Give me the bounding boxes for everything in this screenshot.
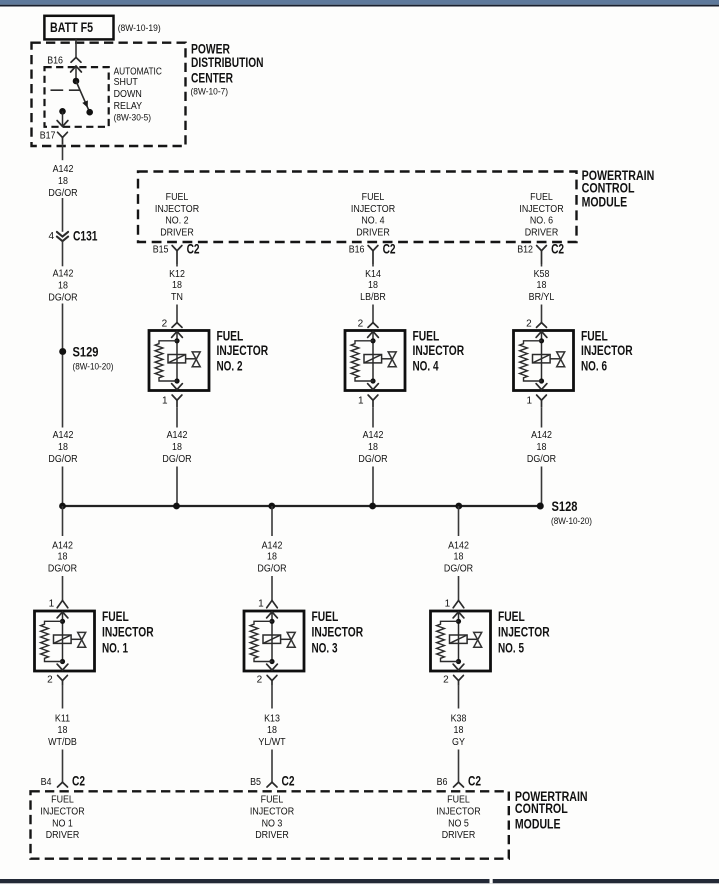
svg-text:DRIVER: DRIVER [442,830,476,841]
powertrain control module dashed box (bottom) [31,791,509,858]
svg-text:C2: C2 [187,242,200,257]
relay normally-open contact [86,109,93,116]
label FUEL INJECTOR NO 5 DRIVER (in PCM box) [436,795,480,842]
injector 2 pin 2 connector [162,319,182,330]
wire injector 6 to splice bus [541,407,543,506]
svg-text:NO 5: NO 5 [448,818,469,829]
connector B6 C2 [437,773,481,788]
wire label K12 18 TN [169,269,185,303]
relay output wire with arrow to B17 [57,111,68,126]
svg-text:DG/OR: DG/OR [48,188,77,199]
wire label K11 18 WT/DB [48,714,77,749]
svg-text:NO. 3: NO. 3 [312,641,338,656]
label FUEL INJECTOR NO. 6 DRIVER (in PCM box) [519,192,563,239]
label FUEL INJECTOR NO 3 DRIVER (in PCM box) [250,795,294,842]
svg-text:1: 1 [445,598,451,609]
wire K14 18 LB/BR from B16 to injector 4 [372,264,374,323]
svg-text:DG/OR: DG/OR [444,564,473,575]
wire label A142 18 DG/OR [527,430,556,465]
svg-text:INJECTOR: INJECTOR [351,204,395,215]
svg-text:(8W-10-19): (8W-10-19) [118,23,161,34]
wire injector 4 to splice bus [372,407,374,506]
wire S129 to splice bus [62,355,64,506]
svg-text:18: 18 [368,280,378,291]
svg-text:18: 18 [58,281,68,292]
svg-text:B17: B17 [40,130,56,141]
svg-text:2: 2 [526,319,532,330]
svg-text:FUEL: FUEL [217,329,244,344]
svg-text:FUEL: FUEL [447,795,470,806]
svg-text:INJECTOR: INJECTOR [217,343,269,358]
svg-text:18: 18 [368,442,378,453]
wire injector 2 to splice bus [176,407,178,506]
svg-text:(8W-30-5): (8W-30-5) [114,112,152,123]
label AUTOMATIC SHUT DOWN RELAY (8W-30-5) [114,66,162,123]
wire splice bus down to injector 5 [458,506,460,600]
svg-text:K38: K38 [451,714,467,725]
svg-text:NO 3: NO 3 [262,818,283,829]
svg-text:2: 2 [358,319,364,330]
label FUEL INJECTOR NO 1 DRIVER (in PCM box) [40,795,84,842]
svg-text:B4: B4 [41,777,52,788]
fuel injector NO. 1 component [35,609,154,671]
wire C131 to splice S129 [62,241,64,348]
svg-text:FUEL: FUEL [261,795,284,806]
injector 2 pin 1 connector [162,395,182,407]
wire splice bus down to injector 3 [271,506,273,600]
bus junction [59,503,66,510]
svg-text:K58: K58 [534,269,550,280]
svg-text:NO. 2: NO. 2 [165,216,189,227]
svg-text:S129: S129 [73,344,99,359]
svg-text:INJECTOR: INJECTOR [413,343,465,358]
svg-text:2: 2 [47,675,53,686]
wire label K58 18 BR/YL [529,269,555,303]
svg-text:RELAY: RELAY [114,101,143,112]
label FUEL INJECTOR NO. 4 DRIVER (in PCM box) [351,192,395,239]
bus junction [268,503,275,510]
svg-text:DG/OR: DG/OR [527,454,556,465]
svg-text:A142: A142 [53,164,74,175]
svg-text:MODULE: MODULE [582,195,628,210]
wire label K13 18 YL/WT [258,714,285,749]
injector 5 pin 2 connector [443,675,463,686]
svg-text:FUEL: FUEL [102,609,129,624]
svg-text:AUTOMATIC: AUTOMATIC [114,66,162,77]
svg-text:B5: B5 [250,777,261,788]
svg-text:2: 2 [443,675,449,686]
svg-text:18: 18 [58,442,68,453]
svg-text:2: 2 [162,319,168,330]
wire label K38 18 GY [451,714,467,749]
wire K38 18 GY from injector 5 to B6 [458,686,460,783]
svg-text:FUEL: FUEL [413,329,440,344]
splice bus wire to S128 [63,505,541,507]
svg-text:A142: A142 [53,268,74,279]
relay output contact [59,108,66,115]
svg-text:GY: GY [452,737,465,748]
wire K58 18 BR/YL from B12 to injector 6 [541,264,543,323]
svg-text:B16: B16 [349,245,365,256]
svg-text:18: 18 [454,725,464,736]
injector 3 pin 1 connector [258,598,277,609]
svg-text:18: 18 [454,551,464,562]
wire from BATT F5 fuse down to relay terminal B16 [75,39,77,57]
wire label A142 18 DG/OR [444,541,473,575]
connector B16 C2 [349,242,396,265]
svg-text:NO 1: NO 1 [52,818,73,829]
svg-text:FUEL: FUEL [581,329,608,344]
relay switch common contact [73,78,80,85]
svg-text:NO. 4: NO. 4 [361,216,385,227]
power distribution center dashed box [32,43,186,146]
bus junction [173,503,180,510]
automatic shut down relay dashed box [45,67,109,127]
svg-text:INJECTOR: INJECTOR [312,625,364,640]
svg-text:DISTRIBUTION: DISTRIBUTION [191,55,264,70]
svg-text:1: 1 [49,598,55,609]
svg-text:18: 18 [58,551,68,562]
svg-text:18: 18 [537,280,547,291]
svg-text:DG/OR: DG/OR [162,454,191,465]
svg-text:DOWN: DOWN [114,89,142,100]
svg-text:DG/OR: DG/OR [48,292,77,303]
svg-text:18: 18 [267,551,277,562]
svg-text:18: 18 [267,725,277,736]
label FUEL INJECTOR NO. 2 DRIVER (in PCM box) [155,192,199,239]
svg-text:B16: B16 [47,55,63,66]
svg-text:4: 4 [48,231,54,242]
svg-text:(8W-10-20): (8W-10-20) [551,516,592,527]
svg-text:INJECTOR: INJECTOR [40,807,84,818]
wire label A142 18 DG/OR [48,268,77,303]
svg-text:A142: A142 [53,430,74,441]
svg-text:INJECTOR: INJECTOR [155,204,199,215]
injector 6 pin 2 connector [526,319,546,330]
svg-text:INJECTOR: INJECTOR [436,807,480,818]
label (8W-10-19) [118,23,161,34]
svg-text:DRIVER: DRIVER [255,830,289,841]
svg-text:FUEL: FUEL [498,609,525,624]
svg-text:C2: C2 [282,773,295,788]
svg-text:(8W-10-20): (8W-10-20) [73,361,114,372]
svg-text:18: 18 [537,442,547,453]
svg-text:A142: A142 [167,430,188,441]
injector 3 pin 2 connector [257,675,277,686]
svg-text:B6: B6 [437,777,448,788]
svg-text:18: 18 [58,176,68,187]
relay switch blade with arrow [76,81,90,112]
svg-text:A142: A142 [531,430,552,441]
fuel injector NO. 4 component [345,329,464,391]
wire splice bus down to injector 1 [62,506,64,600]
wire label A142 18 DG/OR [48,164,77,199]
svg-text:DRIVER: DRIVER [160,228,194,239]
svg-text:FUEL: FUEL [51,795,74,806]
svg-text:NO. 5: NO. 5 [498,641,524,656]
svg-text:WT/DB: WT/DB [48,737,77,748]
svg-text:NO. 2: NO. 2 [217,358,243,373]
label POWER DISTRIBUTION CENTER (8W-10-7) [191,42,264,98]
in-line connector C131 pin 4 [48,229,97,244]
svg-text:INJECTOR: INJECTOR [102,625,154,640]
svg-text:S128: S128 [552,499,578,514]
fuel injector NO. 2 component [149,329,268,391]
svg-text:C2: C2 [72,773,85,788]
svg-text:C2: C2 [468,773,481,788]
svg-text:K13: K13 [264,714,280,725]
svg-text:CENTER: CENTER [191,70,233,85]
connector B4 C2 [41,773,85,788]
svg-text:TN: TN [171,292,183,303]
relay normally-closed fixed contact (dashed) [51,89,81,91]
bus junction [455,503,462,510]
wire label A142 18 DG/OR [257,541,286,575]
injector 4 pin 2 connector [358,319,378,330]
wire K12 18 TN from B15 to injector 2 [176,264,178,323]
fuel injector NO. 5 component [431,609,550,671]
svg-text:18: 18 [58,725,68,736]
svg-text:C2: C2 [383,242,396,257]
fuel injector NO. 6 component [514,329,633,391]
wire label A142 18 DG/OR [358,430,387,465]
relay coil input arrow at B16 [71,66,82,81]
svg-text:DG/OR: DG/OR [358,454,387,465]
svg-text:INJECTOR: INJECTOR [250,807,294,818]
svg-text:K11: K11 [55,714,71,725]
wire B17 to C131 [62,144,64,232]
svg-text:NO. 6: NO. 6 [530,216,554,227]
wire label A142 18 DG/OR [48,430,77,465]
svg-text:DG/OR: DG/OR [48,454,77,465]
svg-text:A142: A142 [448,541,469,552]
splice S128 (8W-10-20) [537,499,592,527]
wire label A142 18 DG/OR [48,541,77,575]
splice S129 (8W-10-20) [59,344,113,372]
fuel injector NO. 3 component [244,609,363,671]
svg-text:SHUT: SHUT [114,77,138,88]
svg-text:INJECTOR: INJECTOR [519,204,563,215]
svg-text:FUEL: FUEL [362,192,385,203]
connector B12 C2 [517,242,564,265]
svg-text:BATT F5: BATT F5 [50,20,93,35]
svg-text:18: 18 [172,280,182,291]
svg-text:K12: K12 [169,269,185,280]
svg-text:B12: B12 [517,245,533,256]
injector 6 pin 1 connector [526,395,546,407]
svg-text:2: 2 [257,675,263,686]
svg-text:DRIVER: DRIVER [525,228,559,239]
svg-text:LB/BR: LB/BR [360,292,386,303]
svg-text:MODULE: MODULE [515,817,561,832]
connector B5 C2 [250,773,294,788]
svg-text:FUEL: FUEL [166,192,189,203]
svg-text:(8W-10-7): (8W-10-7) [191,86,229,97]
svg-text:DRIVER: DRIVER [356,228,390,239]
injector 1 pin 1 connector [49,598,68,609]
fuse BATT F5 [44,16,113,40]
svg-text:FUEL: FUEL [530,192,553,203]
svg-text:CONTROL: CONTROL [515,801,568,816]
label POWERTRAIN CONTROL MODULE (bottom) [515,789,588,832]
svg-text:1: 1 [162,396,168,407]
wire K11 18 WT/DB from injector 1 to B4 [62,686,64,783]
wire K13 18 YL/WT from injector 3 to B5 [271,686,273,783]
svg-text:C131: C131 [73,229,98,244]
svg-text:INJECTOR: INJECTOR [498,625,550,640]
bus junction [369,503,376,510]
svg-text:CONTROL: CONTROL [582,180,635,195]
injector 1 pin 2 connector [47,675,67,686]
svg-text:YL/WT: YL/WT [258,737,285,748]
svg-text:DG/OR: DG/OR [48,564,77,575]
svg-text:A142: A142 [52,541,73,552]
label POWERTRAIN CONTROL MODULE (top) [582,168,655,210]
svg-text:18: 18 [172,442,182,453]
svg-text:1: 1 [258,598,264,609]
svg-text:K14: K14 [365,269,381,280]
svg-text:1: 1 [526,396,532,407]
svg-text:DG/OR: DG/OR [257,564,286,575]
svg-text:C2: C2 [551,242,564,257]
svg-text:A142: A142 [363,430,384,441]
injector 4 pin 1 connector [358,395,378,407]
connector terminal B16 [47,55,81,66]
svg-text:NO. 4: NO. 4 [413,358,439,373]
svg-text:1: 1 [358,396,364,407]
svg-text:FUEL: FUEL [312,609,339,624]
svg-text:INJECTOR: INJECTOR [581,343,633,358]
svg-text:B15: B15 [153,245,169,256]
wire label K14 18 LB/BR [360,269,386,303]
injector 5 pin 1 connector [445,598,464,609]
svg-text:BR/YL: BR/YL [529,292,555,303]
svg-text:DRIVER: DRIVER [46,830,80,841]
svg-text:NO. 6: NO. 6 [581,358,607,373]
svg-text:A142: A142 [262,541,283,552]
connector terminal B17 [40,130,68,144]
connector B15 C2 [153,242,200,265]
svg-text:NO. 1: NO. 1 [102,641,128,656]
wire label A142 18 DG/OR [162,430,191,465]
powertrain control module dashed box (top) [138,172,577,243]
